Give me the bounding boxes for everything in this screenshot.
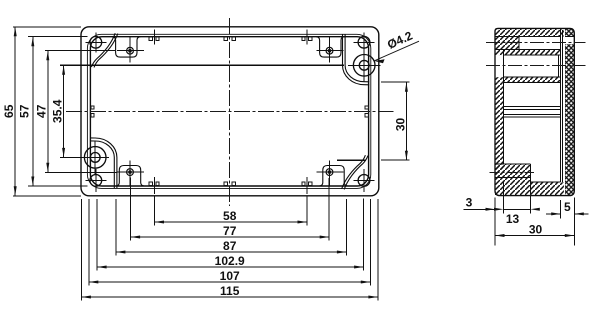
arrows 30	[405, 82, 408, 92]
ribs left	[91, 106, 94, 109]
mounting hole TL	[90, 36, 102, 48]
crosshair mounting TR	[354, 32, 375, 52]
pad BR	[319, 166, 347, 187]
svg-text:65: 65	[2, 104, 16, 118]
svg-text:47: 47	[35, 104, 49, 118]
crosshair ringed TL	[117, 37, 144, 62]
extension lines bottom left	[81, 178, 154, 301]
dim line 5	[546, 213, 589, 215]
svg-text:58: 58	[223, 209, 237, 223]
section hatch: top plate	[495, 28, 564, 36]
arrows 65	[14, 27, 17, 37]
section bottom boss top	[495, 163, 530, 165]
pad BL	[116, 166, 144, 187]
ringed circle BR	[326, 169, 333, 176]
section hatch: band below boss hole	[495, 77, 561, 82]
outer flange rect	[81, 27, 379, 196]
mounting hole BL	[90, 175, 102, 187]
section hatch: left wall	[495, 82, 504, 177]
dim line 58	[155, 221, 308, 223]
boss circles (lid screws bosses)	[84, 55, 375, 169]
lid inner rect	[90, 37, 368, 186]
svg-text:30: 30	[529, 222, 543, 236]
section rails	[504, 106, 561, 117]
main centerlines	[66, 18, 394, 206]
svg-text:57: 57	[18, 104, 32, 118]
dim line 47	[47, 51, 49, 173]
section skirt right edge	[518, 37, 520, 50]
section boss hole right edge	[558, 55, 560, 77]
ringed circle TR	[326, 47, 333, 54]
section hatch: bottom boss	[495, 164, 530, 178]
arrows 35.4	[62, 65, 65, 75]
short tick centerlines for knockouts	[155, 30, 308, 195]
section outer outline	[495, 28, 574, 195]
lid outer rect	[87, 34, 370, 188]
arrows 57	[31, 37, 34, 47]
svg-text:87: 87	[223, 239, 237, 253]
ringed screw circles on pads	[127, 47, 333, 175]
ear TL S-curve	[91, 33, 115, 67]
mounting hole TR	[358, 36, 370, 48]
mounting holes (corner circles)	[90, 36, 370, 186]
boss BL	[84, 147, 106, 169]
dim line 30 section	[495, 235, 574, 237]
section hatch: band above boss hole	[495, 50, 561, 56]
BR shelf stub	[337, 159, 366, 161]
gasket column lower part	[565, 44, 574, 195]
ear BL around boss	[90, 138, 117, 188]
svg-text:115: 115	[220, 284, 240, 298]
axis screw top	[486, 41, 586, 43]
svg-text:13: 13	[506, 212, 520, 226]
dim line 57	[32, 37, 34, 186]
svg-text:107: 107	[220, 269, 240, 283]
arrows 102.9	[97, 266, 107, 269]
arrow 3	[486, 208, 496, 211]
section slab top right	[530, 181, 560, 183]
section boss hole bottom	[504, 76, 561, 78]
cavity top edge (merged with 35.4 ext line)	[60, 64, 344, 66]
crosshair ringed BR	[317, 161, 344, 186]
crosshair mounting BL	[85, 169, 106, 192]
section hatch: lid skirt block	[495, 37, 519, 50]
dim line 3	[464, 208, 496, 210]
arrowheads plan	[14, 27, 408, 299]
extension lines left side	[13, 27, 117, 196]
arrows 47	[46, 51, 49, 61]
section top plate bottom line	[495, 36, 574, 38]
section axes	[486, 42, 586, 172]
dim line 30 right	[405, 82, 407, 160]
dim line 115	[81, 296, 378, 298]
dim line 87	[116, 251, 347, 253]
svg-text:102.9: 102.9	[215, 254, 245, 268]
ringed circle TL	[127, 47, 134, 54]
boss TR	[353, 55, 375, 77]
section hatch: bottom slab	[495, 178, 564, 196]
ear BR S-curve	[344, 156, 368, 190]
extension lines right side for 30	[381, 82, 410, 160]
section gasket cross-hatch column	[565, 28, 574, 36]
crosshair mounting TL	[85, 32, 106, 52]
vertical centerline	[229, 18, 231, 206]
extension lines bottom right	[307, 178, 378, 301]
arrows 115	[81, 296, 91, 299]
svg-text:35.4: 35.4	[50, 99, 64, 123]
crosshair boss BL	[82, 141, 109, 174]
section left wall inner face	[503, 50, 505, 164]
section line top of band	[495, 49, 561, 51]
crosshair ringed TR	[317, 37, 344, 62]
dim line 13	[504, 208, 531, 210]
pad TR	[316, 37, 344, 57]
arrows 58	[155, 221, 165, 224]
arrows 77	[131, 236, 141, 239]
BL boss row stub	[60, 156, 109, 158]
dim line 77	[131, 236, 330, 238]
dim line 65	[14, 27, 16, 196]
arrows 5	[551, 212, 561, 215]
mounting hole BR	[358, 175, 370, 187]
svg-text:77: 77	[223, 224, 237, 238]
svg-text:3: 3	[466, 195, 473, 209]
crosshair ringed BL	[117, 161, 144, 186]
axis bottom boss	[490, 171, 535, 173]
arrows 30 section	[495, 234, 505, 237]
ribs top	[149, 37, 152, 41]
horizontal centerline	[66, 110, 394, 112]
svg-text:30: 30	[394, 118, 408, 132]
ear TR around boss	[343, 34, 370, 85]
leader Ø4.2	[374, 41, 419, 63]
dim line 107	[89, 281, 371, 283]
rib marks on lid edge	[91, 37, 369, 186]
dim line 102.9	[97, 266, 364, 268]
axis boss	[486, 64, 586, 66]
arrows 87	[116, 251, 126, 254]
dim line 35.4	[63, 65, 65, 157]
arrows 107	[89, 281, 99, 284]
section dimension extension lines	[464, 181, 589, 246]
crosshair boss TR	[348, 49, 381, 82]
svg-text:5: 5	[564, 200, 571, 214]
section inner right faces	[561, 30, 563, 182]
ribs right	[365, 106, 368, 109]
arrows 13	[494, 208, 504, 211]
pad TL	[112, 37, 140, 57]
crosshair mounting BR	[354, 169, 375, 192]
ribs bottom	[149, 182, 152, 186]
section line bottom of band	[504, 54, 561, 56]
section boss bottom / slab top left	[495, 177, 530, 179]
section line under band	[504, 81, 561, 83]
section bottom boss right edge	[529, 164, 531, 182]
ringed circle BL	[127, 169, 134, 176]
